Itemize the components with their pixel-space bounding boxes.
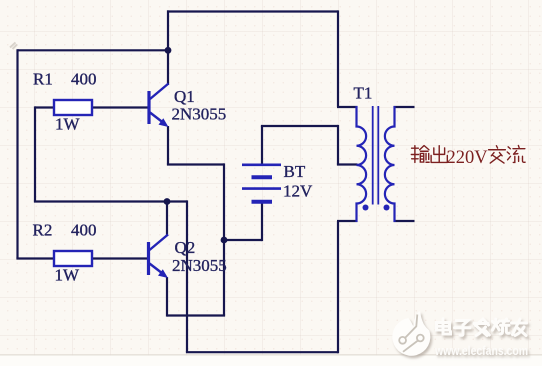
transformer T1 secondary winding: [385, 106, 395, 222]
value 2N3055 (Q1): [172, 105, 227, 124]
wire: top rail Q1 collector to transformer primary top: [167, 10, 358, 107]
wire: R2 right to Q2 base: [92, 257, 148, 259]
wire: Q2 emitter down to negative rail: [167, 277, 225, 317]
wire: Q1 collector vertical: [167, 10, 169, 85]
watermark logo (elecfans drop): [392, 311, 430, 355]
hanzi 流: [507, 146, 525, 163]
stray watermark mark (top-left): [10, 43, 17, 50]
label R2: [33, 221, 53, 240]
hanzi 友: [512, 319, 527, 336]
svg-text:400: 400: [71, 70, 97, 89]
hanzi 出: [431, 146, 447, 163]
label T1: [354, 83, 373, 102]
svg-text:www.elecfans.com: www.elecfans.com: [434, 343, 528, 358]
label BT: [284, 162, 306, 181]
svg-text:2N3055: 2N3055: [172, 256, 227, 275]
wire: secondary top terminal: [394, 106, 415, 108]
wire: R1 left to Q2 collector node (inner loop): [34, 106, 187, 201]
value 1W (R2): [55, 265, 81, 284]
label Q1: [174, 87, 195, 106]
svg-text:Q2: Q2: [175, 238, 196, 257]
watermark logo traces: [399, 315, 423, 352]
value 400 (R1): [71, 70, 97, 89]
svg-text:Q1: Q1: [174, 87, 195, 106]
transistor Q2: [149, 235, 169, 279]
battery BT: [242, 165, 281, 202]
label R1: [33, 70, 53, 89]
svg-text:T1: T1: [354, 83, 373, 102]
text 220V: [447, 148, 489, 168]
svg-text:220V: 220V: [447, 148, 489, 168]
transformer phase dot (primary): [363, 205, 369, 211]
wire: Q1 emitter down and to negative rail: [167, 126, 224, 316]
wire: Q2 collector node down to bottom rail to primary bottom: [186, 200, 358, 353]
node: junction battery negative / emitter rail: [221, 237, 228, 244]
transformer phase dot (secondary): [384, 205, 390, 211]
transformer T1 core: [373, 106, 379, 205]
hanzi 子: [455, 321, 471, 336]
svg-text:1W: 1W: [55, 265, 81, 284]
svg-text:400: 400: [71, 221, 97, 240]
wire: battery negative to emitter rail: [224, 202, 262, 241]
svg-text:12V: 12V: [283, 182, 313, 201]
wire: R1 right to Q1 base: [92, 106, 148, 108]
wire: battery positive to transformer center tap: [261, 125, 358, 165]
value 1W (R1): [55, 115, 81, 134]
resistor R2: [54, 251, 92, 266]
transformer T1 primary winding: [357, 106, 367, 222]
wire: Q2 collector vertical: [166, 202, 168, 237]
hanzi 输: [411, 146, 429, 163]
sheet bottom edge: [0, 355, 542, 366]
hanzi 电: [437, 319, 451, 334]
svg-text:1W: 1W: [55, 115, 81, 134]
hanzi 发: [474, 319, 489, 336]
svg-text:BT: BT: [284, 162, 306, 181]
watermark url www.elecfans.com: [434, 343, 528, 358]
hanzi 交: [489, 146, 506, 163]
value 12V: [283, 182, 313, 201]
transistor Q1: [149, 84, 169, 128]
value 2N3055 (Q2): [172, 256, 227, 275]
svg-text:R2: R2: [33, 221, 53, 240]
node: junction Q1 collector / R2 feedback: [165, 47, 172, 54]
net label: output 220V AC text (输出220V交流): [411, 146, 525, 163]
resistor R1: [54, 100, 92, 115]
svg-text:R1: R1: [33, 70, 53, 89]
svg-text:2N3055: 2N3055: [172, 105, 227, 124]
hanzi 烧: [493, 319, 510, 334]
value 400 (R2): [71, 221, 97, 240]
watermark text 电子发烧友: [437, 319, 527, 336]
wire: feedback from Q1 collector to R2 (left outer loop): [16, 49, 168, 258]
wire: secondary bottom terminal: [394, 220, 415, 222]
label Q2: [175, 238, 196, 257]
node: junction Q2 collector / R1 wire: [164, 198, 171, 205]
